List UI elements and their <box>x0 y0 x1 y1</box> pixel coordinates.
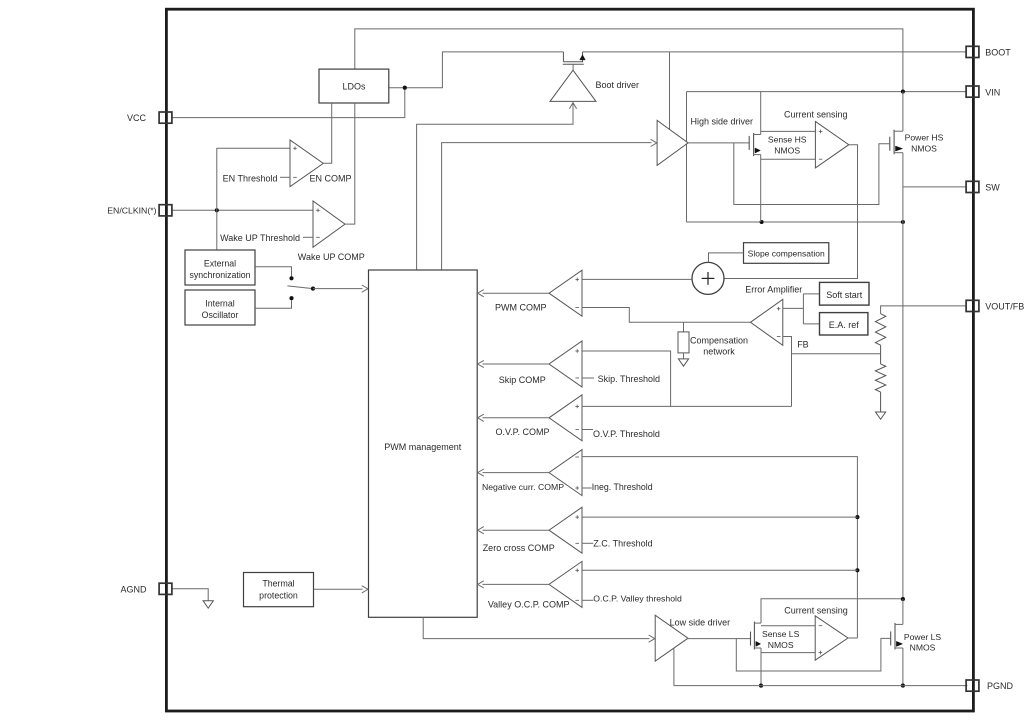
comparator EN COMP <box>290 140 323 187</box>
svg-text:Error Amplifier: Error Amplifier <box>745 285 802 295</box>
op-amp error amplifier <box>751 299 783 345</box>
svg-text:Ineg. Threshold: Ineg. Threshold <box>592 482 653 492</box>
wire valley threshold dash <box>582 599 593 601</box>
wire power LS drain <box>902 599 904 624</box>
wire valley OCP COMP output <box>483 583 550 585</box>
pin VIN <box>966 86 979 97</box>
node valley sense junction <box>855 568 859 572</box>
wire LS sense plus tap <box>761 652 815 654</box>
svg-text:NMOS: NMOS <box>774 146 800 156</box>
wire current sense plus tap <box>761 130 816 132</box>
wire PGND rail <box>674 685 968 687</box>
svg-text:NMOS: NMOS <box>911 144 937 154</box>
wire clock to PWM management <box>313 288 363 290</box>
node sense LS source junction <box>759 684 763 688</box>
svg-text:NMOS: NMOS <box>768 640 794 650</box>
node LS drain junction <box>901 597 905 601</box>
wire boot driver input <box>417 103 573 270</box>
wire power LS source to PGND <box>902 648 904 686</box>
svg-text:High side driver: High side driver <box>691 117 754 127</box>
svg-text:O.C.P. Valley threshold: O.C.P. Valley threshold <box>593 594 682 604</box>
svg-text:Wake UP Threshold: Wake UP Threshold <box>220 233 300 243</box>
chip outline <box>166 9 973 711</box>
ground AGND <box>203 601 213 608</box>
svg-text:protection: protection <box>259 590 298 600</box>
block external synchronization <box>185 250 255 285</box>
pin PGND <box>966 680 979 691</box>
node sync contact <box>289 276 293 280</box>
svg-text:VIN: VIN <box>985 87 1000 97</box>
svg-text:VCC: VCC <box>127 113 147 123</box>
block EA ref <box>820 313 868 335</box>
wire Ineg threshold dash <box>582 487 592 489</box>
wire valley sense line <box>582 569 857 571</box>
wire sense LS drain to SW <box>761 599 903 623</box>
transistor sense LS NMOS <box>750 632 752 646</box>
svg-text:Current sensing: Current sensing <box>784 605 848 615</box>
svg-text:BOOT: BOOT <box>985 47 1011 57</box>
wire EN/CLKIN input <box>171 209 313 211</box>
wire negative current sense line <box>582 457 857 638</box>
wire LS gate detour to power LS gate <box>736 638 890 671</box>
wire ZC threshold dash <box>582 542 593 544</box>
wire Skip COMP output <box>483 363 550 365</box>
svg-text:EN Threshold: EN Threshold <box>223 173 278 183</box>
node selector junction <box>311 287 315 291</box>
wire Wake UP COMP output to LDOs <box>345 103 355 224</box>
node HS bottom right junction <box>901 220 905 224</box>
wire BOOT rail to pin <box>583 51 967 53</box>
pin AGND <box>159 583 172 594</box>
wire summing to PWM COMP plus <box>582 278 692 280</box>
svg-text:PWM COMP: PWM COMP <box>495 302 547 312</box>
comparator Skip COMP <box>549 341 582 387</box>
block thermal protection <box>244 573 314 607</box>
wire sense LS source down <box>760 648 762 686</box>
block soft start <box>820 282 870 305</box>
wire power HS source to SW rail <box>902 153 904 222</box>
node osc contact <box>289 296 293 300</box>
wire VOUT/FB input <box>881 306 967 314</box>
wire zero cross sense line <box>582 516 857 518</box>
svg-text:LDOs: LDOs <box>342 81 366 91</box>
wire VCC to LDO output node <box>172 88 405 118</box>
ground divider <box>876 412 886 419</box>
wire LS sense minus tap <box>761 625 815 627</box>
wire LS driver output to sense gate <box>687 638 751 640</box>
wire current sensing output down to summing <box>724 145 857 279</box>
transistor power LS NMOS <box>890 631 892 645</box>
wire BOOT feed to high side driver <box>669 52 671 129</box>
svg-text:Sense HS: Sense HS <box>768 135 807 145</box>
comparator zero cross COMP <box>549 507 582 553</box>
wire HS cell left rail <box>686 92 688 222</box>
svg-text:Sense LS: Sense LS <box>762 629 800 639</box>
transistor boot switch <box>562 52 564 62</box>
svg-text:O.V.P. COMP: O.V.P. COMP <box>495 427 549 437</box>
svg-text:Thermal: Thermal <box>262 579 294 589</box>
wire PWM to low side driver <box>423 617 649 638</box>
wire EA minus to FB <box>783 337 792 407</box>
op-amp current sensing LS <box>815 616 848 660</box>
svg-text:Low side driver: Low side driver <box>670 617 731 627</box>
wire LS sensing output up <box>848 637 858 639</box>
svg-text:Skip COMP: Skip COMP <box>499 375 546 385</box>
resistor divider lower <box>880 354 882 364</box>
comparator Wake UP COMP <box>313 201 345 247</box>
svg-text:Skip. Threshold: Skip. Threshold <box>598 374 660 384</box>
svg-text:Power LS: Power LS <box>904 632 942 642</box>
node LDO output junction <box>403 86 407 90</box>
wire selector lever <box>287 286 313 289</box>
op-amp low side driver <box>655 615 688 661</box>
wire current sense minus tap <box>761 158 816 160</box>
svg-text:Z.C. Threshold: Z.C. Threshold <box>593 539 652 549</box>
svg-text:synchronization: synchronization <box>189 270 250 280</box>
node power LS source junction <box>901 684 905 688</box>
block slope compensation <box>744 243 829 264</box>
svg-text:Compensation: Compensation <box>690 336 748 346</box>
comparator valley OCP COMP <box>549 561 582 607</box>
wire sense HS source down <box>760 155 762 222</box>
node HS bottom left junction <box>760 220 764 224</box>
wire LDO-to-VIN top rail <box>355 29 903 92</box>
node EN junction <box>215 208 219 212</box>
wire high side driver output to sense gate <box>687 142 749 144</box>
comparator OVP COMP <box>549 395 582 441</box>
pin EN/CLKIN <box>159 205 172 216</box>
wire PWM COMP output <box>483 292 550 294</box>
wire PWM to high side driver <box>442 143 652 270</box>
op-amp current sensing HS <box>815 122 848 168</box>
summing node <box>692 262 724 294</box>
svg-text:Wake UP COMP: Wake UP COMP <box>298 252 365 262</box>
wire thermal to PWM management <box>314 588 363 590</box>
compensation network branch <box>683 322 685 332</box>
svg-text:Power HS: Power HS <box>905 133 944 143</box>
block LDOs <box>319 69 389 103</box>
svg-text:Zero cross COMP: Zero cross COMP <box>483 543 555 553</box>
pin BOOT <box>966 46 979 57</box>
resistor divider upper <box>875 314 885 346</box>
pin AGND wire <box>171 589 208 601</box>
wire gate detour to power HS gate <box>734 143 890 205</box>
comparator negative current COMP <box>549 450 582 496</box>
svg-text:Boot driver: Boot driver <box>596 80 640 90</box>
transistor sense HS NMOS <box>748 136 750 150</box>
svg-text:PWM management: PWM management <box>384 442 462 452</box>
svg-text:Valley O.C.P. COMP: Valley O.C.P. COMP <box>488 599 570 609</box>
svg-text:EN COMP: EN COMP <box>310 174 352 184</box>
wire slope compensation to summing <box>709 253 744 263</box>
wire PWM COMP minus to EA output <box>582 308 750 323</box>
pin VOUT/FB <box>966 300 979 311</box>
block PWM management <box>369 270 478 617</box>
wire EN COMP output to LDOs <box>323 103 332 163</box>
svg-text:AGND: AGND <box>120 584 147 594</box>
svg-text:EN/CLKIN(*): EN/CLKIN(*) <box>107 206 156 216</box>
wire EN to EN COMP plus <box>217 148 290 210</box>
comparator PWM COMP <box>549 270 582 316</box>
svg-text:External: External <box>204 258 236 268</box>
svg-text:Slope compensation: Slope compensation <box>748 249 825 259</box>
pin VCC <box>159 112 172 123</box>
transistor power HS NMOS <box>889 137 891 151</box>
svg-text:Current sensing: Current sensing <box>784 109 848 119</box>
wire skip threshold dash <box>582 377 594 379</box>
svg-text:E.A. ref: E.A. ref <box>829 320 860 330</box>
wire LDOs output to BOOT rail <box>389 52 563 88</box>
block internal oscillator <box>185 290 255 325</box>
wire FB line <box>792 353 881 355</box>
wire external sync output <box>255 267 292 276</box>
svg-text:SW: SW <box>985 182 1000 192</box>
op-amp high side driver <box>657 120 688 165</box>
wire sense HS drain to VIN <box>760 92 762 135</box>
svg-text:O.V.P. Threshold: O.V.P. Threshold <box>593 429 660 439</box>
wire HS cell bottom rail <box>687 221 903 223</box>
wire power HS drain to VIN <box>902 92 904 132</box>
svg-text:Soft start: Soft start <box>826 290 863 300</box>
svg-text:NMOS: NMOS <box>910 643 936 653</box>
svg-text:Internal: Internal <box>205 298 234 308</box>
ground compensation network <box>678 359 688 366</box>
wire SW rail down <box>902 222 904 599</box>
svg-text:network: network <box>703 347 735 357</box>
wire VIN rail <box>687 91 967 93</box>
wire Skip plus to FB net <box>582 351 671 406</box>
svg-text:Oscillator: Oscillator <box>202 310 239 320</box>
wire wake threshold dash <box>303 236 313 238</box>
wire EN to external sync <box>216 210 218 250</box>
wire negative current COMP output <box>483 472 550 474</box>
wire OVP COMP output <box>483 417 550 419</box>
wire zero cross COMP output <box>483 529 550 531</box>
wire EA plus net <box>783 307 804 309</box>
svg-text:VOUT/FB: VOUT/FB <box>985 302 1024 312</box>
svg-text:PGND: PGND <box>987 681 1014 691</box>
wire EN threshold dash <box>280 176 290 178</box>
node zc sense junction <box>855 515 859 519</box>
wire LS driver ground stub <box>673 649 675 686</box>
wire OVP plus to FB net <box>582 405 792 407</box>
svg-text:Negative curr. COMP: Negative curr. COMP <box>482 482 564 492</box>
wire SW to pin <box>903 186 966 188</box>
svg-text:FB: FB <box>797 340 809 350</box>
node VIN junction <box>901 90 905 94</box>
op-amp boot driver <box>550 70 596 101</box>
pin SW <box>966 181 979 192</box>
wire OVP threshold dash <box>582 429 593 431</box>
wire internal osc output <box>255 300 292 308</box>
